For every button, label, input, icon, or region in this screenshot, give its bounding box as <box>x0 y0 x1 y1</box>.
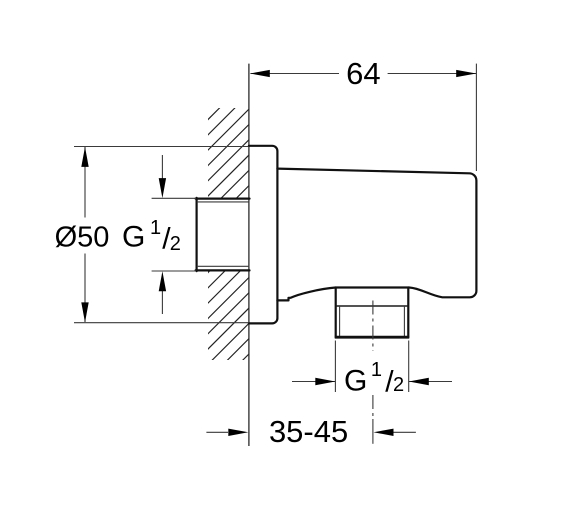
threaded inlet pipe G1/2 behind wall <box>196 198 250 271</box>
svg-text:G: G <box>344 364 367 397</box>
wall section hatching <box>0 103 500 365</box>
pipe thread root bottom <box>197 265 250 267</box>
dimension line right segment <box>409 381 452 383</box>
dimension D50 <box>74 147 248 323</box>
outlet centerline <box>372 301 374 444</box>
elbow body outline <box>277 169 476 301</box>
pipe end face <box>196 198 198 271</box>
svg-text:64: 64 <box>346 56 380 91</box>
extension line bottom <box>74 322 248 324</box>
boss end face <box>335 336 409 339</box>
arrowhead down <box>81 302 88 322</box>
arrowhead left <box>315 378 335 385</box>
dimension line upper segment <box>84 147 86 218</box>
svg-text:2: 2 <box>170 233 181 255</box>
arrowhead right <box>456 70 476 77</box>
dimension line left segment <box>251 73 340 75</box>
svg-text:2: 2 <box>393 374 404 396</box>
thread root right <box>403 306 405 336</box>
boss right edge <box>407 288 409 338</box>
dimension line right segment <box>394 431 416 433</box>
svg-text:1: 1 <box>150 217 161 239</box>
arrowhead up <box>81 147 88 167</box>
arrowhead left <box>228 429 248 436</box>
dimension line left segment <box>206 431 228 433</box>
dimension G1/2 outlet thread <box>292 341 452 399</box>
wall flange escutcheon D50 <box>249 146 278 324</box>
arrowhead right <box>374 429 394 436</box>
extension line top <box>152 197 196 199</box>
dimension line left segment <box>292 381 335 383</box>
hose outlet boss G1/2 <box>335 288 409 338</box>
label D50 G 1/2 <box>55 217 181 255</box>
extension line bottom <box>152 270 196 272</box>
arrowhead right <box>409 378 429 385</box>
leader line lower <box>161 276 163 314</box>
leader line upper <box>161 155 163 193</box>
arrowhead up <box>159 271 166 291</box>
extension line right <box>408 341 410 393</box>
svg-text:G: G <box>122 221 145 254</box>
dimension 64 <box>250 56 477 171</box>
svg-text:1: 1 <box>371 359 382 381</box>
boss left edge <box>335 288 337 338</box>
svg-text:Ø50: Ø50 <box>55 222 110 254</box>
arrowhead left <box>250 70 270 77</box>
svg-text:35-45: 35-45 <box>269 414 348 449</box>
dimension G1/2 inlet thread <box>152 155 196 314</box>
thread root left <box>339 306 341 336</box>
extension line left <box>334 341 336 393</box>
pipe thread root top <box>197 201 250 203</box>
dimension line lower segment <box>84 254 86 323</box>
arrowhead down <box>159 178 166 198</box>
dimension line right segment <box>388 73 476 75</box>
dimension 35-45 <box>206 414 416 449</box>
pipe thread crest top <box>196 198 250 200</box>
wall face line (also extension line for 64 and 35-45) <box>248 64 250 446</box>
pipe thread crest bottom <box>196 269 250 271</box>
extension line right <box>475 64 477 171</box>
extension line top <box>74 146 248 148</box>
thread start line <box>336 305 409 307</box>
